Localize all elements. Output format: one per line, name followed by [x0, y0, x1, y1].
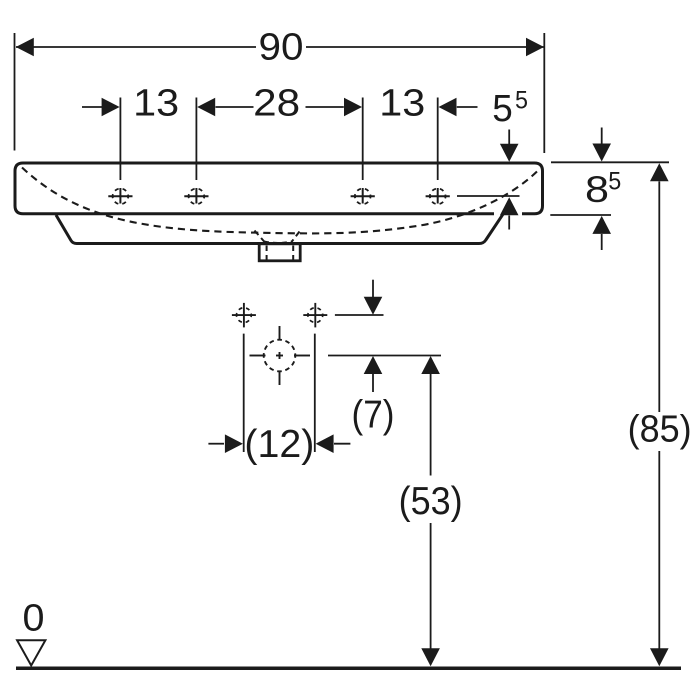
dim 7 up arrow tail [372, 374, 374, 392]
dim 8.5 bottom reference line [550, 214, 611, 216]
dim 53 down arrowhead [421, 648, 440, 666]
svg-text:(85): (85) [628, 408, 692, 450]
dim 8.5 down arrowhead [592, 144, 611, 162]
dim 8.5 down arrow tail [601, 128, 603, 144]
dim 28 right arrowhead [344, 98, 362, 117]
svg-text:5: 5 [492, 88, 513, 130]
fixing hole left cross [232, 303, 256, 328]
dim 85 line lower [658, 451, 660, 649]
hole height up arrowhead [500, 197, 519, 215]
dim 12 extension line right [314, 334, 316, 452]
fixing hole right cross [303, 303, 327, 328]
dim 5.5 arrowhead at hole4 [439, 98, 457, 117]
dim 12 left arrowhead [225, 434, 243, 453]
hole height leader line [457, 195, 520, 197]
dim 90 line right segment [306, 46, 544, 48]
svg-text:(7): (7) [352, 394, 395, 437]
dim 13 left arrow tail [82, 106, 102, 108]
tick hole4 extension [437, 98, 439, 181]
dim 7 down arrow tail [372, 280, 374, 297]
tap hole 2 cross [184, 188, 208, 204]
pointer 5.5 down arrowhead [500, 144, 519, 162]
dim 7 up arrowhead [364, 356, 383, 374]
svg-text:90: 90 [259, 26, 304, 68]
dim 85 line upper [658, 181, 660, 412]
tick hole3 extension [362, 98, 364, 181]
dim 85 up arrowhead [650, 163, 669, 181]
drain dashed inner line left [266, 246, 268, 260]
svg-text:0: 0 [23, 598, 45, 640]
svg-text:28: 28 [253, 83, 300, 125]
datum zero triangle [17, 640, 45, 665]
drain dashed inner line right [292, 246, 294, 260]
dim 12 right arrow tail [334, 443, 350, 445]
drain funnel dashed left [255, 231, 266, 243]
dim 8.5 top reference line [551, 161, 669, 163]
dim 12 extension line left [243, 334, 245, 452]
basin inner dashed rim curve [22, 168, 537, 234]
waste outlet dashed circle [250, 326, 311, 385]
svg-text:13: 13 [133, 83, 179, 125]
tick hole2 extension [195, 98, 197, 181]
floor line [16, 666, 681, 670]
dim 90 line left segment [16, 46, 256, 48]
hole height arrow tail [508, 216, 510, 230]
waste level reference line [328, 355, 441, 357]
dim 13 left arrowhead [102, 98, 120, 117]
basin apron [56, 214, 503, 243]
dim 90 extension line right [543, 33, 545, 153]
svg-text:(53): (53) [399, 480, 463, 523]
dim 12 left arrow tail [208, 443, 224, 445]
fixing level reference line [335, 314, 384, 316]
svg-text:8: 8 [585, 169, 609, 210]
tap hole 1 cross [108, 188, 132, 204]
svg-text:13: 13 [379, 83, 425, 125]
drain funnel dashed arc [264, 242, 292, 244]
dim 5.5 tail [457, 106, 478, 108]
dim 53 line lower [430, 523, 432, 649]
dim 90 arrow right [526, 38, 544, 57]
dim 12 right arrowhead [316, 434, 334, 453]
dim 90 arrow left [16, 38, 34, 57]
tap hole 4 cross [426, 188, 450, 204]
dim 28 left tail [216, 106, 254, 108]
pointer 5.5 vertical line [508, 130, 510, 146]
dim 7 down arrowhead [364, 297, 383, 315]
tick hole1 extension [119, 98, 121, 181]
drain funnel dashed right [292, 232, 300, 243]
svg-text:5: 5 [608, 168, 621, 196]
dim 90 extension line left [14, 33, 16, 151]
basin outline rounded rect [15, 163, 543, 214]
dim 8.5 up arrow tail [601, 234, 603, 250]
dim 28 left arrowhead [197, 98, 215, 117]
drain box [259, 244, 300, 261]
dim 85 down arrowhead [650, 648, 669, 666]
tap hole 3 cross [351, 188, 375, 204]
svg-text:5: 5 [515, 87, 528, 115]
dim 53 up arrowhead [421, 356, 440, 374]
dim 53 line upper [430, 374, 432, 476]
dim 8.5 up arrowhead [592, 216, 611, 234]
dim 28 right tail [306, 106, 344, 108]
svg-text:(12): (12) [244, 423, 314, 466]
